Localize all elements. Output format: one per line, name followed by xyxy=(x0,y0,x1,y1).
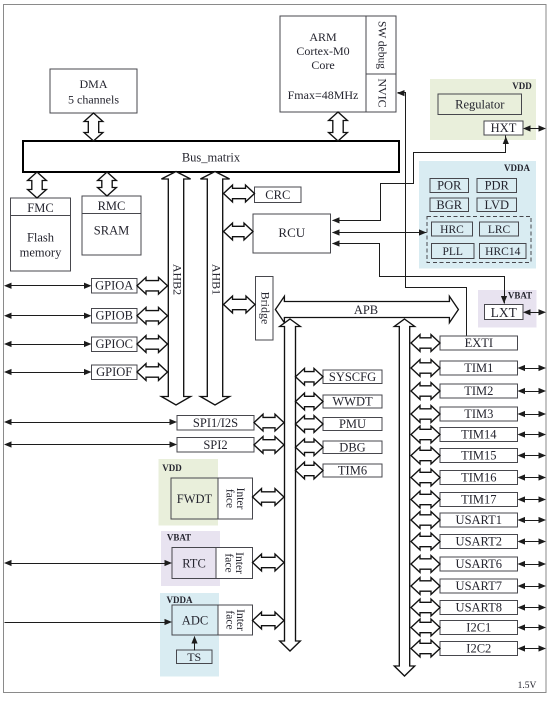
svg-text:GPIOA: GPIOA xyxy=(95,279,133,293)
svg-text:5 channels: 5 channels xyxy=(68,93,119,107)
svg-text:TIM14: TIM14 xyxy=(461,427,497,441)
svg-text:1.5V: 1.5V xyxy=(518,681,537,691)
svg-text:NVIC: NVIC xyxy=(375,78,389,107)
svg-text:RCU: RCU xyxy=(278,225,305,240)
svg-text:ARM: ARM xyxy=(309,30,337,44)
svg-text:Core: Core xyxy=(311,58,334,72)
svg-text:APB: APB xyxy=(354,303,378,317)
svg-text:I2C1: I2C1 xyxy=(466,620,491,634)
svg-text:AHB1: AHB1 xyxy=(209,264,223,295)
svg-text:TIM2: TIM2 xyxy=(464,384,493,398)
svg-text:memory: memory xyxy=(20,246,62,260)
svg-text:RTC: RTC xyxy=(182,557,206,571)
svg-text:Flash: Flash xyxy=(27,231,55,245)
svg-text:LXT: LXT xyxy=(491,305,518,320)
svg-text:USART7: USART7 xyxy=(456,579,502,593)
svg-text:SRAM: SRAM xyxy=(94,224,129,238)
svg-text:BGR: BGR xyxy=(436,198,462,212)
svg-text:PDR: PDR xyxy=(485,179,510,193)
svg-text:PMU: PMU xyxy=(339,417,366,431)
svg-text:ADC: ADC xyxy=(182,614,208,628)
svg-text:DBG: DBG xyxy=(339,440,365,454)
svg-text:TIM15: TIM15 xyxy=(461,448,496,462)
svg-text:face: face xyxy=(223,610,235,629)
svg-text:LVD: LVD xyxy=(484,198,509,212)
svg-text:Fmax=48MHz: Fmax=48MHz xyxy=(288,88,359,102)
svg-text:Cortex-M0: Cortex-M0 xyxy=(296,44,349,58)
svg-text:GPIOF: GPIOF xyxy=(96,365,132,379)
svg-text:SW debug: SW debug xyxy=(375,21,387,69)
svg-text:TIM3: TIM3 xyxy=(464,407,493,421)
svg-text:TIM6: TIM6 xyxy=(338,464,367,478)
svg-text:Regulator: Regulator xyxy=(455,98,505,112)
svg-text:USART6: USART6 xyxy=(456,557,502,571)
svg-text:HXT: HXT xyxy=(491,121,517,135)
svg-text:SYSCFG: SYSCFG xyxy=(329,370,376,384)
svg-text:GPIOB: GPIOB xyxy=(95,309,133,323)
svg-text:FMC: FMC xyxy=(27,201,53,215)
svg-text:USART8: USART8 xyxy=(456,600,502,614)
svg-text:Bus_matrix: Bus_matrix xyxy=(182,151,241,165)
svg-text:AHB2: AHB2 xyxy=(170,264,184,295)
svg-text:VDD: VDD xyxy=(162,463,182,473)
svg-text:TS: TS xyxy=(187,650,201,664)
svg-text:PLL: PLL xyxy=(443,246,463,258)
svg-text:VDDA: VDDA xyxy=(504,163,530,173)
svg-text:face: face xyxy=(222,553,234,572)
svg-text:VBAT: VBAT xyxy=(508,291,532,301)
svg-text:face: face xyxy=(223,489,235,508)
svg-text:Bridge: Bridge xyxy=(258,292,272,325)
svg-text:FWDT: FWDT xyxy=(177,492,213,506)
svg-text:DMA: DMA xyxy=(79,77,107,91)
svg-text:TIM16: TIM16 xyxy=(461,470,496,484)
svg-text:EXTI: EXTI xyxy=(465,336,493,350)
svg-text:TIM17: TIM17 xyxy=(461,492,496,506)
svg-text:GPIOC: GPIOC xyxy=(95,337,133,351)
svg-text:I2C2: I2C2 xyxy=(466,641,491,655)
svg-text:HRC14: HRC14 xyxy=(485,246,520,258)
svg-text:SPI2: SPI2 xyxy=(203,438,227,452)
svg-text:WWDT: WWDT xyxy=(332,395,373,409)
svg-text:HRC: HRC xyxy=(440,224,464,236)
svg-text:VBAT: VBAT xyxy=(167,533,191,543)
svg-text:VDD: VDD xyxy=(512,81,532,91)
svg-text:RMC: RMC xyxy=(98,199,126,213)
svg-text:TIM1: TIM1 xyxy=(464,361,493,375)
svg-text:LRC: LRC xyxy=(488,224,511,236)
svg-text:CRC: CRC xyxy=(265,188,290,202)
svg-text:POR: POR xyxy=(437,179,462,193)
svg-text:USART2: USART2 xyxy=(456,534,502,548)
svg-text:USART1: USART1 xyxy=(456,513,502,527)
svg-text:VDDA: VDDA xyxy=(167,595,193,605)
svg-text:SPI1/I2S: SPI1/I2S xyxy=(193,416,238,430)
